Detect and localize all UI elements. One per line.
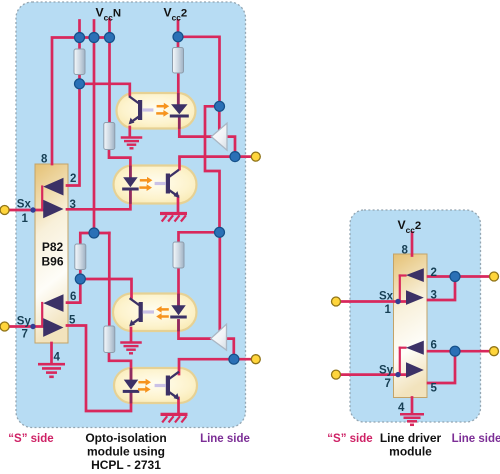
svg-text:2: 2 bbox=[431, 267, 437, 279]
svg-text:3: 3 bbox=[70, 199, 76, 211]
svg-text:“S” side: “S” side bbox=[327, 433, 372, 445]
svg-text:module: module bbox=[389, 445, 432, 459]
svg-text:6: 6 bbox=[70, 291, 76, 303]
svg-text:3: 3 bbox=[431, 290, 437, 302]
svg-text:Sy: Sy bbox=[379, 365, 394, 377]
svg-text:Line side: Line side bbox=[200, 433, 250, 445]
svg-text:2: 2 bbox=[70, 173, 76, 185]
svg-text:8: 8 bbox=[402, 245, 409, 257]
svg-text:Opto-isolation: Opto-isolation bbox=[85, 431, 166, 445]
svg-text:5: 5 bbox=[431, 383, 438, 395]
svg-text:Sx: Sx bbox=[379, 291, 394, 303]
svg-text:8: 8 bbox=[41, 153, 48, 165]
svg-text:5: 5 bbox=[69, 314, 76, 326]
svg-text:6: 6 bbox=[431, 340, 437, 352]
svg-text:Line driver: Line driver bbox=[380, 431, 442, 445]
svg-text:P82: P82 bbox=[42, 240, 64, 254]
svg-text:B96: B96 bbox=[41, 255, 63, 269]
svg-text:Sy: Sy bbox=[17, 316, 32, 328]
svg-text:4: 4 bbox=[54, 352, 61, 364]
svg-text:7: 7 bbox=[385, 378, 391, 390]
svg-text:4: 4 bbox=[398, 402, 405, 414]
svg-text:Sx: Sx bbox=[17, 199, 32, 211]
svg-text:HCPL - 2731: HCPL - 2731 bbox=[91, 458, 161, 472]
svg-text:Line side: Line side bbox=[452, 433, 500, 445]
svg-text:1: 1 bbox=[385, 304, 392, 316]
svg-text:“S” side: “S” side bbox=[8, 433, 53, 445]
svg-text:module using: module using bbox=[87, 445, 165, 459]
svg-text:1: 1 bbox=[22, 213, 29, 225]
svg-text:7: 7 bbox=[22, 329, 28, 341]
